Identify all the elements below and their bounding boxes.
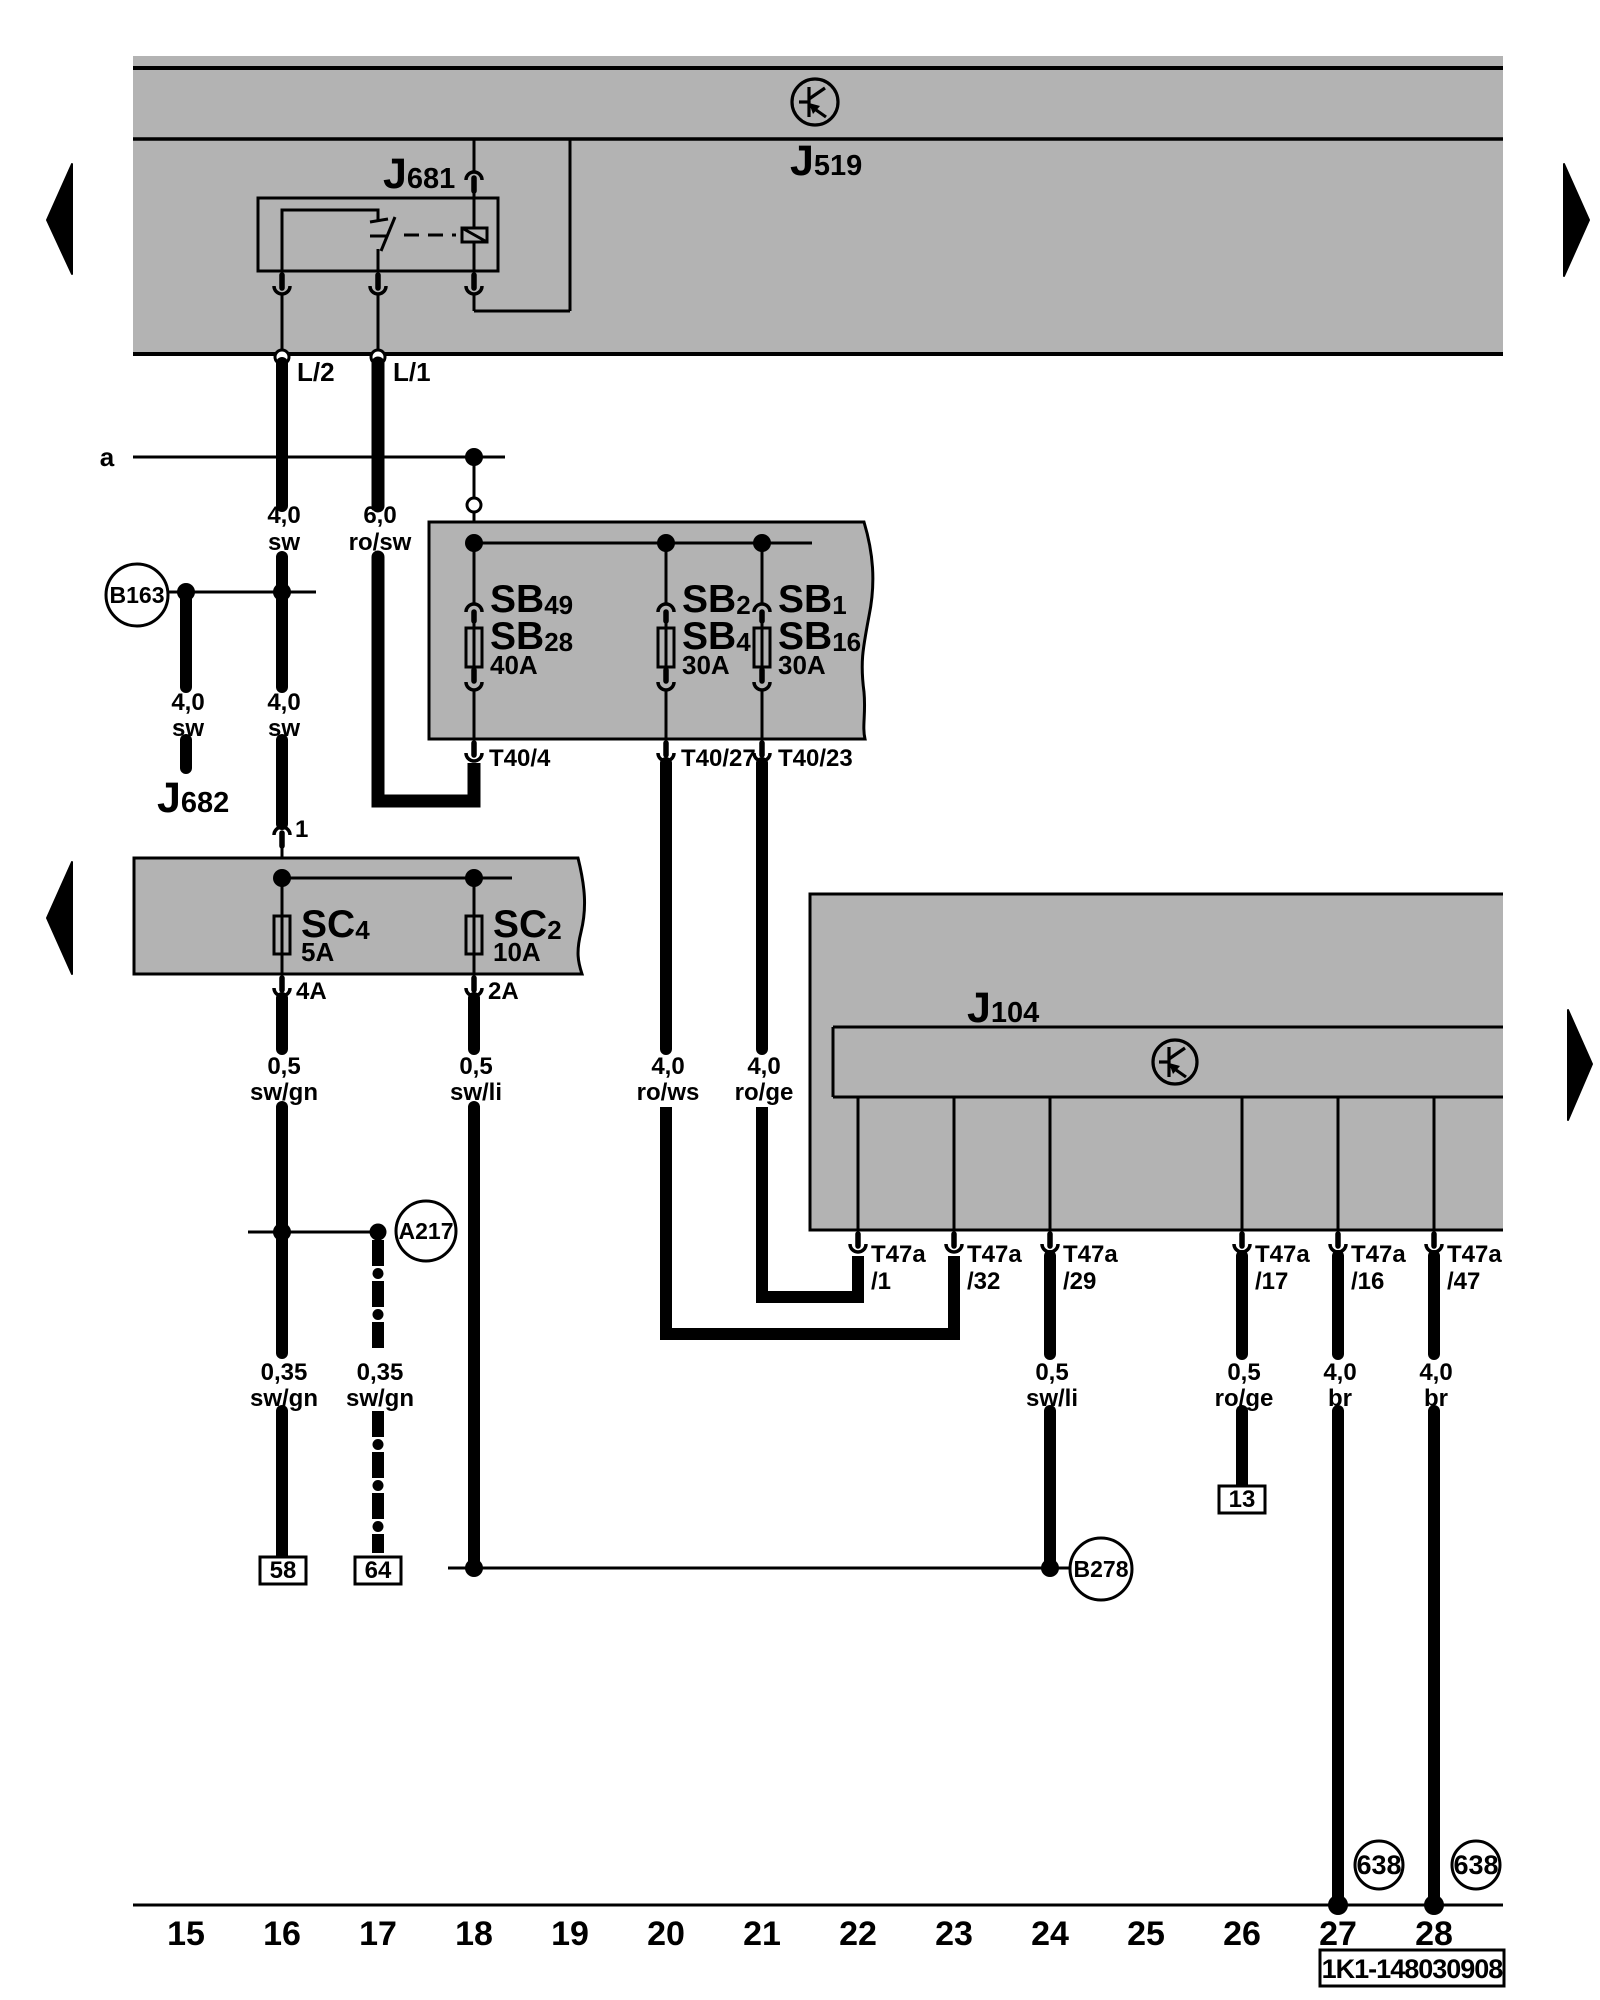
svg-text:30A: 30A bbox=[682, 650, 730, 680]
svg-text:/29: /29 bbox=[1063, 1268, 1096, 1295]
svg-text:sw/gn: sw/gn bbox=[250, 1385, 318, 1412]
svg-text:L/2: L/2 bbox=[297, 357, 335, 387]
svg-text:sw/gn: sw/gn bbox=[346, 1385, 414, 1412]
svg-text:/47: /47 bbox=[1447, 1268, 1480, 1295]
svg-text:T47a: T47a bbox=[871, 1241, 926, 1268]
svg-text:64: 64 bbox=[365, 1557, 392, 1584]
svg-text:5A: 5A bbox=[301, 937, 334, 967]
svg-text:13: 13 bbox=[1229, 1486, 1256, 1513]
svg-text:638: 638 bbox=[1453, 1850, 1498, 1880]
svg-text:B278: B278 bbox=[1074, 1556, 1129, 1582]
svg-text:21: 21 bbox=[743, 1915, 781, 1953]
svg-text:L/1: L/1 bbox=[393, 357, 431, 387]
svg-text:J682: J682 bbox=[157, 774, 229, 822]
svg-text:T40/4: T40/4 bbox=[489, 745, 551, 772]
svg-text:27: 27 bbox=[1319, 1915, 1357, 1953]
svg-text:4,0: 4,0 bbox=[267, 689, 300, 716]
svg-text:4,0: 4,0 bbox=[1323, 1359, 1356, 1386]
svg-text:17: 17 bbox=[359, 1915, 397, 1953]
svg-text:18: 18 bbox=[455, 1915, 493, 1953]
svg-text:638: 638 bbox=[1356, 1850, 1401, 1880]
svg-text:25: 25 bbox=[1127, 1915, 1165, 1953]
svg-text:4,0: 4,0 bbox=[651, 1053, 684, 1080]
svg-text:16: 16 bbox=[263, 1915, 301, 1953]
svg-text:sw/gn: sw/gn bbox=[250, 1079, 318, 1106]
svg-text:1: 1 bbox=[295, 816, 308, 843]
svg-text:4A: 4A bbox=[296, 978, 327, 1005]
svg-text:58: 58 bbox=[270, 1557, 297, 1584]
svg-text:1K1-148030908: 1K1-148030908 bbox=[1322, 1954, 1504, 1984]
svg-text:ro/ge: ro/ge bbox=[735, 1079, 794, 1106]
svg-text:sw: sw bbox=[172, 715, 204, 742]
svg-text:ro/sw: ro/sw bbox=[349, 529, 412, 556]
svg-text:ro/ge: ro/ge bbox=[1215, 1385, 1274, 1412]
svg-text:T47a: T47a bbox=[1063, 1241, 1118, 1268]
svg-text:4,0: 4,0 bbox=[267, 502, 300, 529]
svg-text:0,5: 0,5 bbox=[459, 1053, 492, 1080]
svg-text:26: 26 bbox=[1223, 1915, 1261, 1953]
svg-text:0,5: 0,5 bbox=[267, 1053, 300, 1080]
svg-text:10A: 10A bbox=[493, 937, 541, 967]
svg-text:4,0: 4,0 bbox=[171, 689, 204, 716]
svg-text:24: 24 bbox=[1031, 1915, 1069, 1953]
svg-text:23: 23 bbox=[935, 1915, 973, 1953]
svg-text:T40/23: T40/23 bbox=[778, 745, 853, 772]
svg-text:sw/li: sw/li bbox=[450, 1079, 502, 1106]
svg-text:br: br bbox=[1424, 1385, 1448, 1412]
svg-text:/17: /17 bbox=[1255, 1268, 1288, 1295]
svg-text:22: 22 bbox=[839, 1915, 877, 1953]
svg-text:19: 19 bbox=[551, 1915, 589, 1953]
svg-text:40A: 40A bbox=[490, 650, 538, 680]
svg-text:sw: sw bbox=[268, 529, 300, 556]
svg-text:6,0: 6,0 bbox=[363, 502, 396, 529]
svg-text:0,5: 0,5 bbox=[1227, 1359, 1260, 1386]
svg-text:15: 15 bbox=[167, 1915, 205, 1953]
svg-text:sw: sw bbox=[268, 715, 300, 742]
svg-text:0,5: 0,5 bbox=[1035, 1359, 1068, 1386]
svg-text:0,35: 0,35 bbox=[261, 1359, 308, 1386]
svg-text:T40/27: T40/27 bbox=[681, 745, 756, 772]
svg-text:T47a: T47a bbox=[1255, 1241, 1310, 1268]
svg-text:a: a bbox=[100, 442, 115, 472]
svg-text:T47a: T47a bbox=[1447, 1241, 1502, 1268]
svg-text:30A: 30A bbox=[778, 650, 826, 680]
svg-text:28: 28 bbox=[1415, 1915, 1453, 1953]
svg-text:2A: 2A bbox=[488, 978, 519, 1005]
svg-text:4,0: 4,0 bbox=[747, 1053, 780, 1080]
svg-text:20: 20 bbox=[647, 1915, 685, 1953]
svg-text:T47a: T47a bbox=[967, 1241, 1022, 1268]
svg-text:ro/ws: ro/ws bbox=[637, 1079, 700, 1106]
svg-text:0,35: 0,35 bbox=[357, 1359, 404, 1386]
svg-text:sw/li: sw/li bbox=[1026, 1385, 1078, 1412]
svg-text:br: br bbox=[1328, 1385, 1352, 1412]
svg-text:/1: /1 bbox=[871, 1268, 891, 1295]
svg-text:T47a: T47a bbox=[1351, 1241, 1406, 1268]
svg-text:B163: B163 bbox=[110, 582, 165, 608]
svg-text:A217: A217 bbox=[399, 1218, 454, 1244]
svg-text:/16: /16 bbox=[1351, 1268, 1384, 1295]
svg-text:4,0: 4,0 bbox=[1419, 1359, 1452, 1386]
svg-text:/32: /32 bbox=[967, 1268, 1000, 1295]
